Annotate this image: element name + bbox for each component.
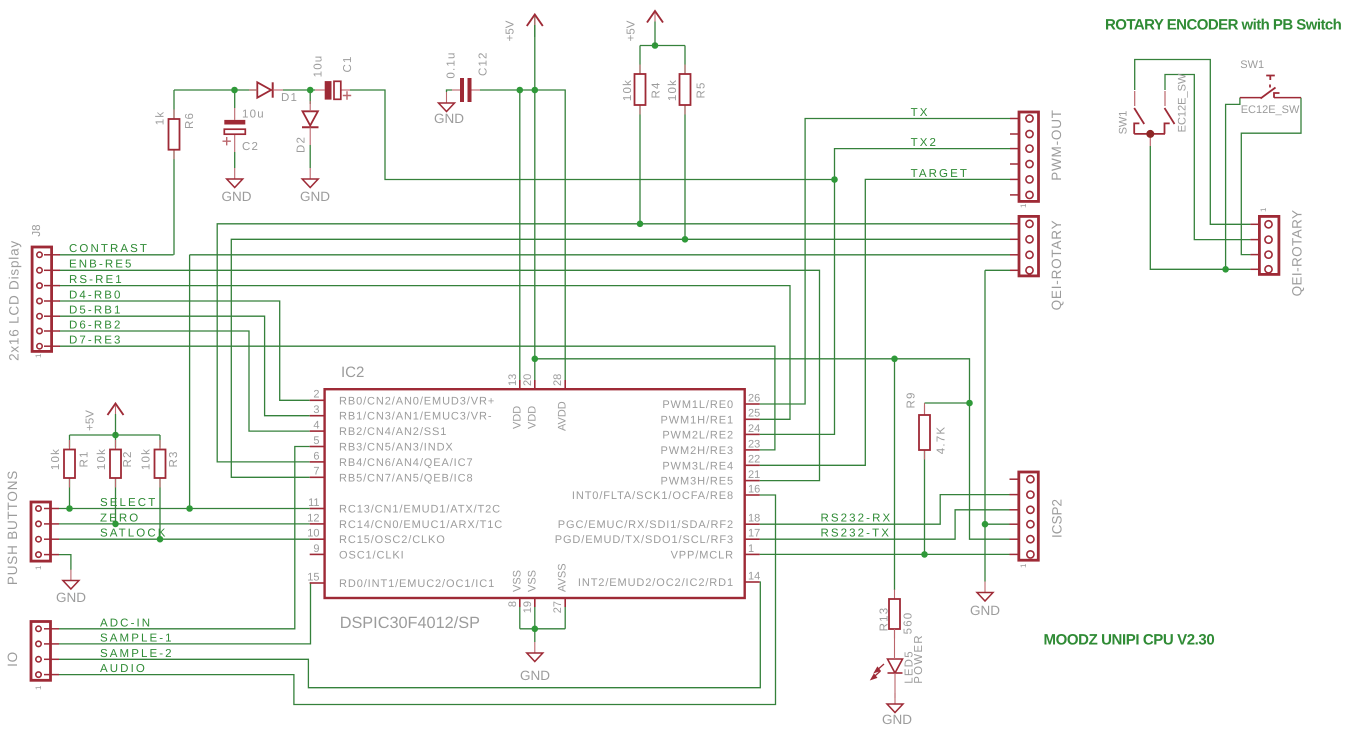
svg-text:AUDIO: AUDIO bbox=[100, 663, 147, 675]
wire R6 top lead bbox=[173, 90, 175, 119]
switch SW1 pushbutton EC12E_SW bbox=[1240, 76, 1301, 99]
svg-text:RB4/CN6/AN4/QEA/IC7: RB4/CN6/AN4/QEA/IC7 bbox=[339, 457, 473, 469]
svg-text:R3: R3 bbox=[168, 450, 180, 467]
svg-text:4.7K: 4.7K bbox=[936, 426, 948, 454]
ground VSS bbox=[520, 642, 550, 683]
svg-text:RS232-TX: RS232-TX bbox=[821, 528, 892, 540]
svg-text:R6: R6 bbox=[184, 112, 196, 129]
wire R5 bottom lead to QEI-B net bbox=[684, 105, 686, 239]
svg-text:RB2/CN4/AN2/SS1: RB2/CN4/AN2/SS1 bbox=[339, 426, 447, 438]
svg-text:1: 1 bbox=[1019, 203, 1028, 208]
svg-text:4: 4 bbox=[313, 420, 319, 432]
svg-text:7: 7 bbox=[313, 466, 319, 478]
IC2 pin 2 RB0 bbox=[310, 389, 495, 408]
wire net SELECT top run to QEI pin3 bbox=[190, 254, 1010, 256]
svg-text:ICSP2: ICSP2 bbox=[1049, 499, 1064, 538]
ground under C2 bbox=[222, 168, 252, 204]
wire +5V branch to right (to R9/ICSP5) bbox=[535, 359, 1010, 539]
wire net ZERO to IC pin12 bbox=[59, 523, 310, 525]
svg-text:SW1: SW1 bbox=[1240, 59, 1264, 71]
svg-text:24: 24 bbox=[748, 423, 760, 435]
ground under D2 bbox=[300, 168, 330, 204]
wire net TARGET to PWM-OUT pin5 bbox=[760, 179, 1010, 465]
svg-text:D4-RB0: D4-RB0 bbox=[69, 289, 123, 301]
IC2 pin 14 INT2 bbox=[578, 570, 760, 589]
connector IO bbox=[31, 622, 59, 681]
svg-text:PUSH BUTTONS: PUSH BUTTONS bbox=[5, 470, 20, 585]
svg-text:18: 18 bbox=[748, 513, 760, 525]
svg-text:PGC/EMUC/RX/SDI1/SDA/RF2: PGC/EMUC/RX/SDI1/SDA/RF2 bbox=[558, 519, 734, 531]
svg-text:SAMPLE-2: SAMPLE-2 bbox=[100, 648, 174, 660]
IC2 pin 24 PWM2L bbox=[662, 423, 760, 442]
svg-text:R2: R2 bbox=[122, 450, 134, 467]
junction encoder GND bbox=[1222, 266, 1229, 273]
junction ICSP4/GND bbox=[982, 521, 989, 528]
svg-text:GND: GND bbox=[434, 111, 464, 126]
IC2 pin 18 PGC bbox=[558, 513, 761, 532]
svg-text:2x16 LCD Display: 2x16 LCD Display bbox=[6, 240, 21, 361]
wire R2 bottom lead bbox=[115, 478, 117, 524]
svg-text:10k: 10k bbox=[96, 448, 108, 470]
ground under C12 bbox=[434, 92, 464, 126]
IC2 pin 3 RB1 bbox=[310, 404, 493, 423]
switch SW1 encoder contact A bbox=[1134, 91, 1144, 134]
svg-text:TARGET: TARGET bbox=[911, 168, 969, 180]
svg-text:560: 560 bbox=[903, 612, 915, 635]
junction +5V branch bbox=[532, 356, 539, 363]
wire AVSS pin27 lead bbox=[564, 607, 566, 629]
wire net MCLR pin1 to ICSP pin6 bbox=[760, 553, 1010, 555]
svg-text:21: 21 bbox=[748, 469, 760, 481]
junction R2/ZERO bbox=[112, 521, 119, 528]
resistor R5 bbox=[680, 65, 691, 115]
junction encoder common (dark) bbox=[1146, 130, 1154, 138]
wire encoder A contact top to QEI-R pin1 bbox=[1135, 60, 1251, 225]
svg-text:10k: 10k bbox=[141, 448, 153, 470]
IC2 pin 22 PWM3L bbox=[662, 454, 760, 473]
wire net QEI4-GND vertical bbox=[984, 270, 986, 581]
svg-text:GND: GND bbox=[520, 668, 550, 683]
IC2 pin 8 VSS bottom bbox=[507, 570, 524, 607]
svg-text:10k: 10k bbox=[50, 448, 62, 470]
svg-text:AVSS: AVSS bbox=[557, 563, 569, 592]
svg-text:VPP/MCLR: VPP/MCLR bbox=[671, 549, 734, 561]
svg-text:CONTRAST: CONTRAST bbox=[69, 243, 149, 255]
junction VSS/GND bbox=[532, 626, 539, 633]
wire R9 top stub bbox=[924, 403, 926, 415]
wire C2 top lead bbox=[234, 90, 236, 108]
svg-text:EC12E_SW: EC12E_SW bbox=[1177, 73, 1189, 132]
svg-text:SW1: SW1 bbox=[1118, 111, 1130, 135]
junction R1/SELECT bbox=[66, 505, 73, 512]
svg-text:RC13/CN1/EMUD1/ATX/T2C: RC13/CN1/EMUD1/ATX/T2C bbox=[339, 504, 501, 516]
svg-text:GND: GND bbox=[970, 603, 1000, 618]
wire net SATLOCK to IC pin10 bbox=[59, 538, 310, 540]
svg-text:IO: IO bbox=[5, 651, 20, 667]
svg-text:ENB-RE5: ENB-RE5 bbox=[69, 259, 134, 271]
svg-text:DSPIC30F4012/SP: DSPIC30F4012/SP bbox=[340, 614, 480, 632]
svg-text:+5V: +5V bbox=[626, 20, 638, 41]
svg-text:15: 15 bbox=[307, 571, 319, 583]
wire encoder common to QEI-R pin4 bbox=[1150, 146, 1250, 269]
wire C12 left plate to GND bbox=[447, 90, 453, 92]
svg-text:ROTARY ENCODER with PB Switch: ROTARY ENCODER with PB Switch bbox=[1105, 17, 1342, 34]
junction R4/QEI-A bbox=[637, 221, 644, 228]
svg-text:D5-RB1: D5-RB1 bbox=[69, 305, 123, 317]
svg-text:11: 11 bbox=[308, 497, 319, 509]
connector QEI-ROTARY left bbox=[1010, 216, 1039, 276]
svg-text:28: 28 bbox=[552, 374, 564, 386]
IC2 pin 20 VDD top bbox=[522, 374, 539, 429]
wire encoder B contact top to QEI-R pin2 bbox=[1165, 75, 1250, 240]
wire R9 top lead horizontal bbox=[925, 402, 970, 404]
resistor R4 bbox=[635, 65, 646, 115]
svg-text:RB3/CN5/AN3/INDX: RB3/CN5/AN3/INDX bbox=[339, 442, 454, 454]
connector QEI-ROTARY right bbox=[1250, 216, 1279, 274]
wire R9 bottom lead to MCLR bbox=[924, 450, 926, 554]
resistor R6 bbox=[169, 110, 180, 160]
svg-text:INT2/EMUD2/OC2/IC2/RD1: INT2/EMUD2/OC2/IC2/RD1 bbox=[578, 577, 734, 589]
wire net SAMPLE-2 to IC pin14 bbox=[59, 582, 760, 688]
svg-text:RC15/OSC2/CLKO: RC15/OSC2/CLKO bbox=[339, 534, 446, 546]
wire R6 bottom lead to CONTRAST bbox=[173, 150, 175, 255]
wire C12 right to AVDD corner bbox=[480, 90, 565, 380]
svg-text:1: 1 bbox=[34, 685, 43, 690]
wire pushbutton left terminal to GND net bbox=[1226, 98, 1240, 270]
svg-text:D7-RE3: D7-RE3 bbox=[69, 335, 123, 347]
wire QEI-ROTARY pin4 stub wire bbox=[985, 269, 1010, 271]
resistor R3 bbox=[155, 440, 166, 488]
svg-text:RB0/CN2/AN0/EMUD3/VR+: RB0/CN2/AN0/EMUD3/VR+ bbox=[339, 395, 495, 407]
IC2 pin 11 RC13 bbox=[308, 497, 501, 516]
wire C12 left pin bbox=[452, 89, 460, 91]
svg-text:MOODZ UNIPI CPU V2.30: MOODZ UNIPI CPU V2.30 bbox=[1044, 632, 1215, 649]
svg-text:12: 12 bbox=[307, 512, 319, 524]
svg-text:13: 13 bbox=[507, 374, 519, 386]
wire C1 right to corner down to TX2 junction bbox=[350, 90, 835, 180]
svg-text:1: 1 bbox=[1019, 563, 1028, 568]
svg-text:EC12E_SW: EC12E_SW bbox=[1241, 104, 1300, 116]
svg-text:PGD/EMUD/TX/SDO1/SCL/RF3: PGD/EMUD/TX/SDO1/SCL/RF3 bbox=[555, 534, 734, 546]
junction R9/MCLR bbox=[921, 551, 928, 558]
wire net QEI-B (encoder B to QEB pin7) bbox=[231, 239, 1010, 477]
svg-text:1: 1 bbox=[34, 353, 43, 358]
svg-text:D6-RB2: D6-RB2 bbox=[69, 320, 123, 332]
IC2 pin 27 AVSS bottom bbox=[552, 563, 569, 613]
connector J8 LCD bbox=[32, 247, 60, 351]
IC2 pin 25 PWM1H bbox=[661, 408, 761, 427]
IC2 pin 9 OSC1 bbox=[310, 543, 405, 562]
resistor R2 bbox=[110, 440, 121, 488]
svg-text:RS-RE1: RS-RE1 bbox=[69, 274, 124, 286]
svg-text:ZERO: ZERO bbox=[100, 512, 140, 524]
IC2 pin 4 RB2 bbox=[310, 420, 448, 439]
svg-text:R5: R5 bbox=[696, 81, 708, 98]
wire D2 bottom lead to GND bbox=[309, 145, 311, 168]
svg-text:26: 26 bbox=[748, 392, 760, 404]
svg-text:C12: C12 bbox=[478, 51, 490, 76]
wire net SELECT bottom run to IC pin11 bbox=[59, 508, 310, 510]
wire encoder common bar bbox=[1134, 133, 1165, 135]
svg-text:ADC-IN: ADC-IN bbox=[100, 617, 152, 629]
wire R3 bottom lead bbox=[159, 478, 161, 539]
diode D2 bbox=[302, 101, 319, 145]
svg-text:20: 20 bbox=[522, 374, 534, 386]
wire +5V2 horizontal R4-R5 bbox=[640, 45, 685, 47]
wire pushbutton right terminal to QEI-R pin3 bbox=[1241, 98, 1301, 255]
svg-text:25: 25 bbox=[748, 408, 760, 420]
junction +5V2 bbox=[652, 42, 659, 49]
svg-text:1: 1 bbox=[34, 565, 43, 570]
wire net SAMPLE-1 to IC pin15 bbox=[59, 583, 311, 644]
svg-text:+5V: +5V bbox=[505, 20, 517, 41]
capacitor C1 bbox=[325, 81, 351, 100]
svg-text:6: 6 bbox=[313, 450, 319, 462]
svg-text:5: 5 bbox=[313, 435, 319, 447]
wire VSS to GND stem bbox=[534, 629, 536, 642]
IC2 pin 13 VDD top bbox=[507, 374, 524, 429]
svg-text:D2: D2 bbox=[296, 136, 308, 153]
svg-text:R13: R13 bbox=[879, 607, 891, 632]
junction +5V/pin20 bbox=[532, 87, 539, 94]
wire net ADC-IN to IC pin5 bbox=[59, 447, 310, 629]
wire R1 bottom lead bbox=[69, 478, 71, 509]
svg-text:VSS: VSS bbox=[526, 570, 538, 592]
svg-text:D1: D1 bbox=[281, 92, 298, 104]
power +5V main bbox=[505, 15, 543, 42]
svg-text:10: 10 bbox=[307, 528, 319, 540]
capacitor C12 bbox=[460, 78, 472, 102]
IC2 pin 7 RB5 bbox=[310, 466, 474, 485]
svg-text:IC2: IC2 bbox=[341, 364, 364, 381]
wire net AUDIO to IC pin16 bbox=[59, 495, 776, 705]
wire net QEI-A (encoder A to QEA pin6) bbox=[217, 224, 1010, 462]
svg-text:23: 23 bbox=[748, 438, 760, 450]
svg-text:TX: TX bbox=[911, 107, 930, 119]
svg-text:POWER: POWER bbox=[913, 634, 925, 683]
svg-text:C2: C2 bbox=[242, 141, 259, 153]
junction TX2/C1 bbox=[831, 176, 838, 183]
svg-text:9: 9 bbox=[313, 543, 319, 555]
wire VSS pin8 lead bbox=[519, 607, 521, 629]
IC2 pin 6 RB4 bbox=[310, 450, 474, 469]
wire pushbutton pin4 to GND bbox=[59, 555, 71, 570]
connector PWM-OUT bbox=[1010, 112, 1039, 201]
junction +5V3 bbox=[112, 432, 119, 439]
svg-text:SAMPLE-1: SAMPLE-1 bbox=[100, 632, 174, 644]
svg-text:GND: GND bbox=[222, 189, 252, 204]
svg-text:PWM2H/RE3: PWM2H/RE3 bbox=[661, 445, 735, 457]
svg-text:RB5/CN7/AN5/QEB/IC8: RB5/CN7/AN5/QEB/IC8 bbox=[339, 472, 473, 484]
svg-text:19: 19 bbox=[522, 601, 534, 613]
svg-text:PWM-OUT: PWM-OUT bbox=[1049, 109, 1064, 181]
wire +5V3 horizontal R1-R3 bbox=[70, 434, 161, 436]
junction SELECT vertical bbox=[186, 505, 193, 512]
IC2 pin 21 PWM3H bbox=[661, 469, 761, 488]
wire D2 top lead bbox=[309, 90, 311, 104]
switch SW1 encoder contact B bbox=[1165, 91, 1175, 134]
capacitor C2 bbox=[223, 120, 246, 145]
wire R4 top lead bbox=[639, 46, 641, 75]
svg-text:VDD: VDD bbox=[511, 406, 523, 429]
IC2 pin 10 RC15 bbox=[307, 528, 446, 547]
wire VSS pin19 lead bbox=[534, 607, 536, 629]
svg-text:VSS: VSS bbox=[511, 570, 523, 592]
svg-text:27: 27 bbox=[552, 601, 564, 613]
IC2 pin 17 PGD bbox=[555, 528, 761, 547]
svg-text:2: 2 bbox=[313, 389, 319, 401]
wire +5V rail top-left (R6/C2/D1/D2/C1 row) bbox=[174, 89, 257, 91]
IC2 pin 12 RC14 bbox=[307, 512, 503, 531]
svg-text:RC14/CN0/EMUC1/ARX/T1C: RC14/CN0/EMUC1/ARX/T1C bbox=[339, 519, 503, 531]
svg-text:17: 17 bbox=[748, 528, 760, 540]
svg-text:GND: GND bbox=[300, 189, 330, 204]
ground under LED5 bbox=[882, 693, 912, 727]
IC2 pin 1 VPP bbox=[671, 543, 760, 562]
wire net RS232-TX pin17 to ICSP pin3 bbox=[760, 510, 1010, 539]
svg-text:PWM1L/RE0: PWM1L/RE0 bbox=[662, 399, 734, 411]
svg-text:16: 16 bbox=[748, 483, 760, 495]
IC2 pin 23 PWM2H bbox=[661, 438, 761, 457]
wire net TX to PWM-OUT pin1 bbox=[760, 119, 1010, 405]
junction R13 branch bbox=[891, 356, 898, 363]
diode D1 bbox=[249, 82, 283, 97]
connector PUSH BUTTONS bbox=[31, 502, 59, 561]
junction R9 top bbox=[966, 400, 973, 407]
svg-text:QEI-ROTARY: QEI-ROTARY bbox=[1049, 220, 1064, 311]
svg-text:PWM3L/RE4: PWM3L/RE4 bbox=[662, 460, 734, 472]
wire net CONTRAST bbox=[59, 254, 174, 256]
svg-text:10u: 10u bbox=[242, 109, 265, 121]
svg-text:+5V: +5V bbox=[85, 410, 97, 431]
wire net D4-RB0 bbox=[59, 301, 310, 400]
wire C1 left pin bbox=[315, 89, 325, 91]
wire net D7-RE3 bbox=[59, 346, 775, 450]
svg-text:8: 8 bbox=[507, 601, 519, 607]
wire net ENB-RE5 bbox=[59, 270, 820, 480]
wire R3 top lead bbox=[159, 435, 161, 448]
resistor R9 bbox=[919, 406, 930, 460]
IC2 pin 28 AVDD top bbox=[552, 374, 569, 431]
wire R5 top lead bbox=[684, 46, 686, 75]
LED LED5 bbox=[871, 629, 902, 698]
wire net SELECT vertical bbox=[189, 255, 191, 509]
svg-text:J8: J8 bbox=[31, 224, 43, 236]
connector ICSP2 bbox=[1010, 472, 1039, 560]
svg-text:1: 1 bbox=[748, 543, 754, 555]
svg-text:RD0/INT1/EMUC2/OC1/IC1: RD0/INT1/EMUC2/OC1/IC1 bbox=[339, 578, 495, 590]
svg-text:R4: R4 bbox=[651, 81, 663, 98]
svg-text:RB1/CN3/AN1/EMUC3/VR-: RB1/CN3/AN1/EMUC3/VR- bbox=[339, 411, 492, 423]
junction C2 top bbox=[231, 87, 238, 94]
IC2 pin 19 VSS bottom bbox=[522, 570, 539, 613]
svg-text:22: 22 bbox=[748, 454, 760, 466]
svg-text:OSC1/CLKI: OSC1/CLKI bbox=[339, 549, 405, 561]
power +5V pushbuttons bbox=[85, 404, 124, 436]
wire VDD pin13 vertical bbox=[519, 90, 521, 380]
wire D1 cathode to C1 bbox=[283, 89, 315, 91]
wire net TX2 to PWM-OUT pin3 bbox=[760, 149, 1010, 435]
wire net RS232-RX pin18 to ICSP pin2 bbox=[760, 495, 1010, 525]
IC2 pin 26 PWM1L bbox=[662, 392, 760, 411]
wire R1 top lead bbox=[69, 435, 71, 448]
IC IC2 DSPIC30F4012/SP bbox=[325, 389, 745, 598]
svg-text:0.1u: 0.1u bbox=[446, 51, 458, 78]
svg-text:TX2: TX2 bbox=[911, 137, 938, 149]
svg-text:VDD: VDD bbox=[526, 406, 538, 429]
wire C1 right pin bbox=[341, 89, 350, 91]
wire R4 bottom lead to QEI-A net bbox=[639, 105, 641, 224]
wire VSS join bbox=[520, 628, 565, 630]
junction VDD pin13 bbox=[517, 87, 524, 94]
resistor R13 bbox=[889, 590, 900, 639]
power +5V R4R5 bbox=[626, 11, 664, 46]
wire +5V stem down through VDD pin20 bbox=[534, 16, 536, 380]
svg-text:1k: 1k bbox=[155, 111, 167, 126]
svg-text:GND: GND bbox=[882, 712, 912, 727]
svg-text:C1: C1 bbox=[342, 55, 354, 72]
svg-text:PWM2L/RE2: PWM2L/RE2 bbox=[662, 429, 734, 441]
svg-text:14: 14 bbox=[748, 570, 760, 582]
svg-text:PWM1H/RE1: PWM1H/RE1 bbox=[661, 414, 735, 426]
svg-text:AVDD: AVDD bbox=[557, 401, 569, 431]
resistor R1 bbox=[64, 440, 75, 488]
svg-text:GND: GND bbox=[56, 590, 86, 605]
IC2 pin 5 RB3 bbox=[310, 435, 454, 454]
svg-text:RS232-RX: RS232-RX bbox=[821, 513, 893, 525]
wire R13 branch vertical from +5V bbox=[894, 359, 896, 590]
wire net D5-RB1 bbox=[59, 316, 310, 416]
junction R5/QEI-B bbox=[682, 236, 689, 243]
svg-text:INT0/FLTA/SCK1/OCFA/RE8: INT0/FLTA/SCK1/OCFA/RE8 bbox=[572, 490, 734, 502]
svg-text:1: 1 bbox=[1259, 207, 1268, 212]
ground under pushbuttons bbox=[56, 570, 86, 606]
svg-text:10k: 10k bbox=[667, 79, 679, 101]
svg-text:10u: 10u bbox=[313, 55, 325, 78]
svg-text:R1: R1 bbox=[79, 450, 91, 467]
wire net RS-RE1 bbox=[59, 286, 790, 420]
wire net D6-RB2 bbox=[59, 331, 310, 431]
wire C2 bottom lead to GND bbox=[234, 152, 236, 168]
wire R2 top lead bbox=[115, 435, 117, 448]
svg-text:QEI-ROTARY: QEI-ROTARY bbox=[1289, 210, 1304, 297]
wire C12 right pin bbox=[472, 89, 481, 91]
svg-text:3: 3 bbox=[313, 404, 319, 416]
IC2 pin 16 INT0 bbox=[572, 483, 760, 502]
svg-text:10k: 10k bbox=[622, 79, 634, 101]
svg-text:PWM3H/RE5: PWM3H/RE5 bbox=[661, 476, 735, 488]
wire C2 bottom pin bbox=[234, 134, 236, 152]
svg-text:SELECT: SELECT bbox=[100, 497, 157, 509]
junction R3/SATLOCK bbox=[157, 536, 164, 543]
junction D2 top bbox=[307, 87, 314, 94]
svg-text:SATLOCK: SATLOCK bbox=[100, 528, 168, 540]
wire ICSP pin4 to GND net bbox=[985, 523, 1010, 525]
svg-text:R9: R9 bbox=[906, 391, 918, 408]
wire C2 top pin bbox=[234, 108, 236, 120]
ground under ICSP bbox=[970, 582, 1000, 619]
IC2 pin 15 RD0 bbox=[307, 571, 495, 590]
